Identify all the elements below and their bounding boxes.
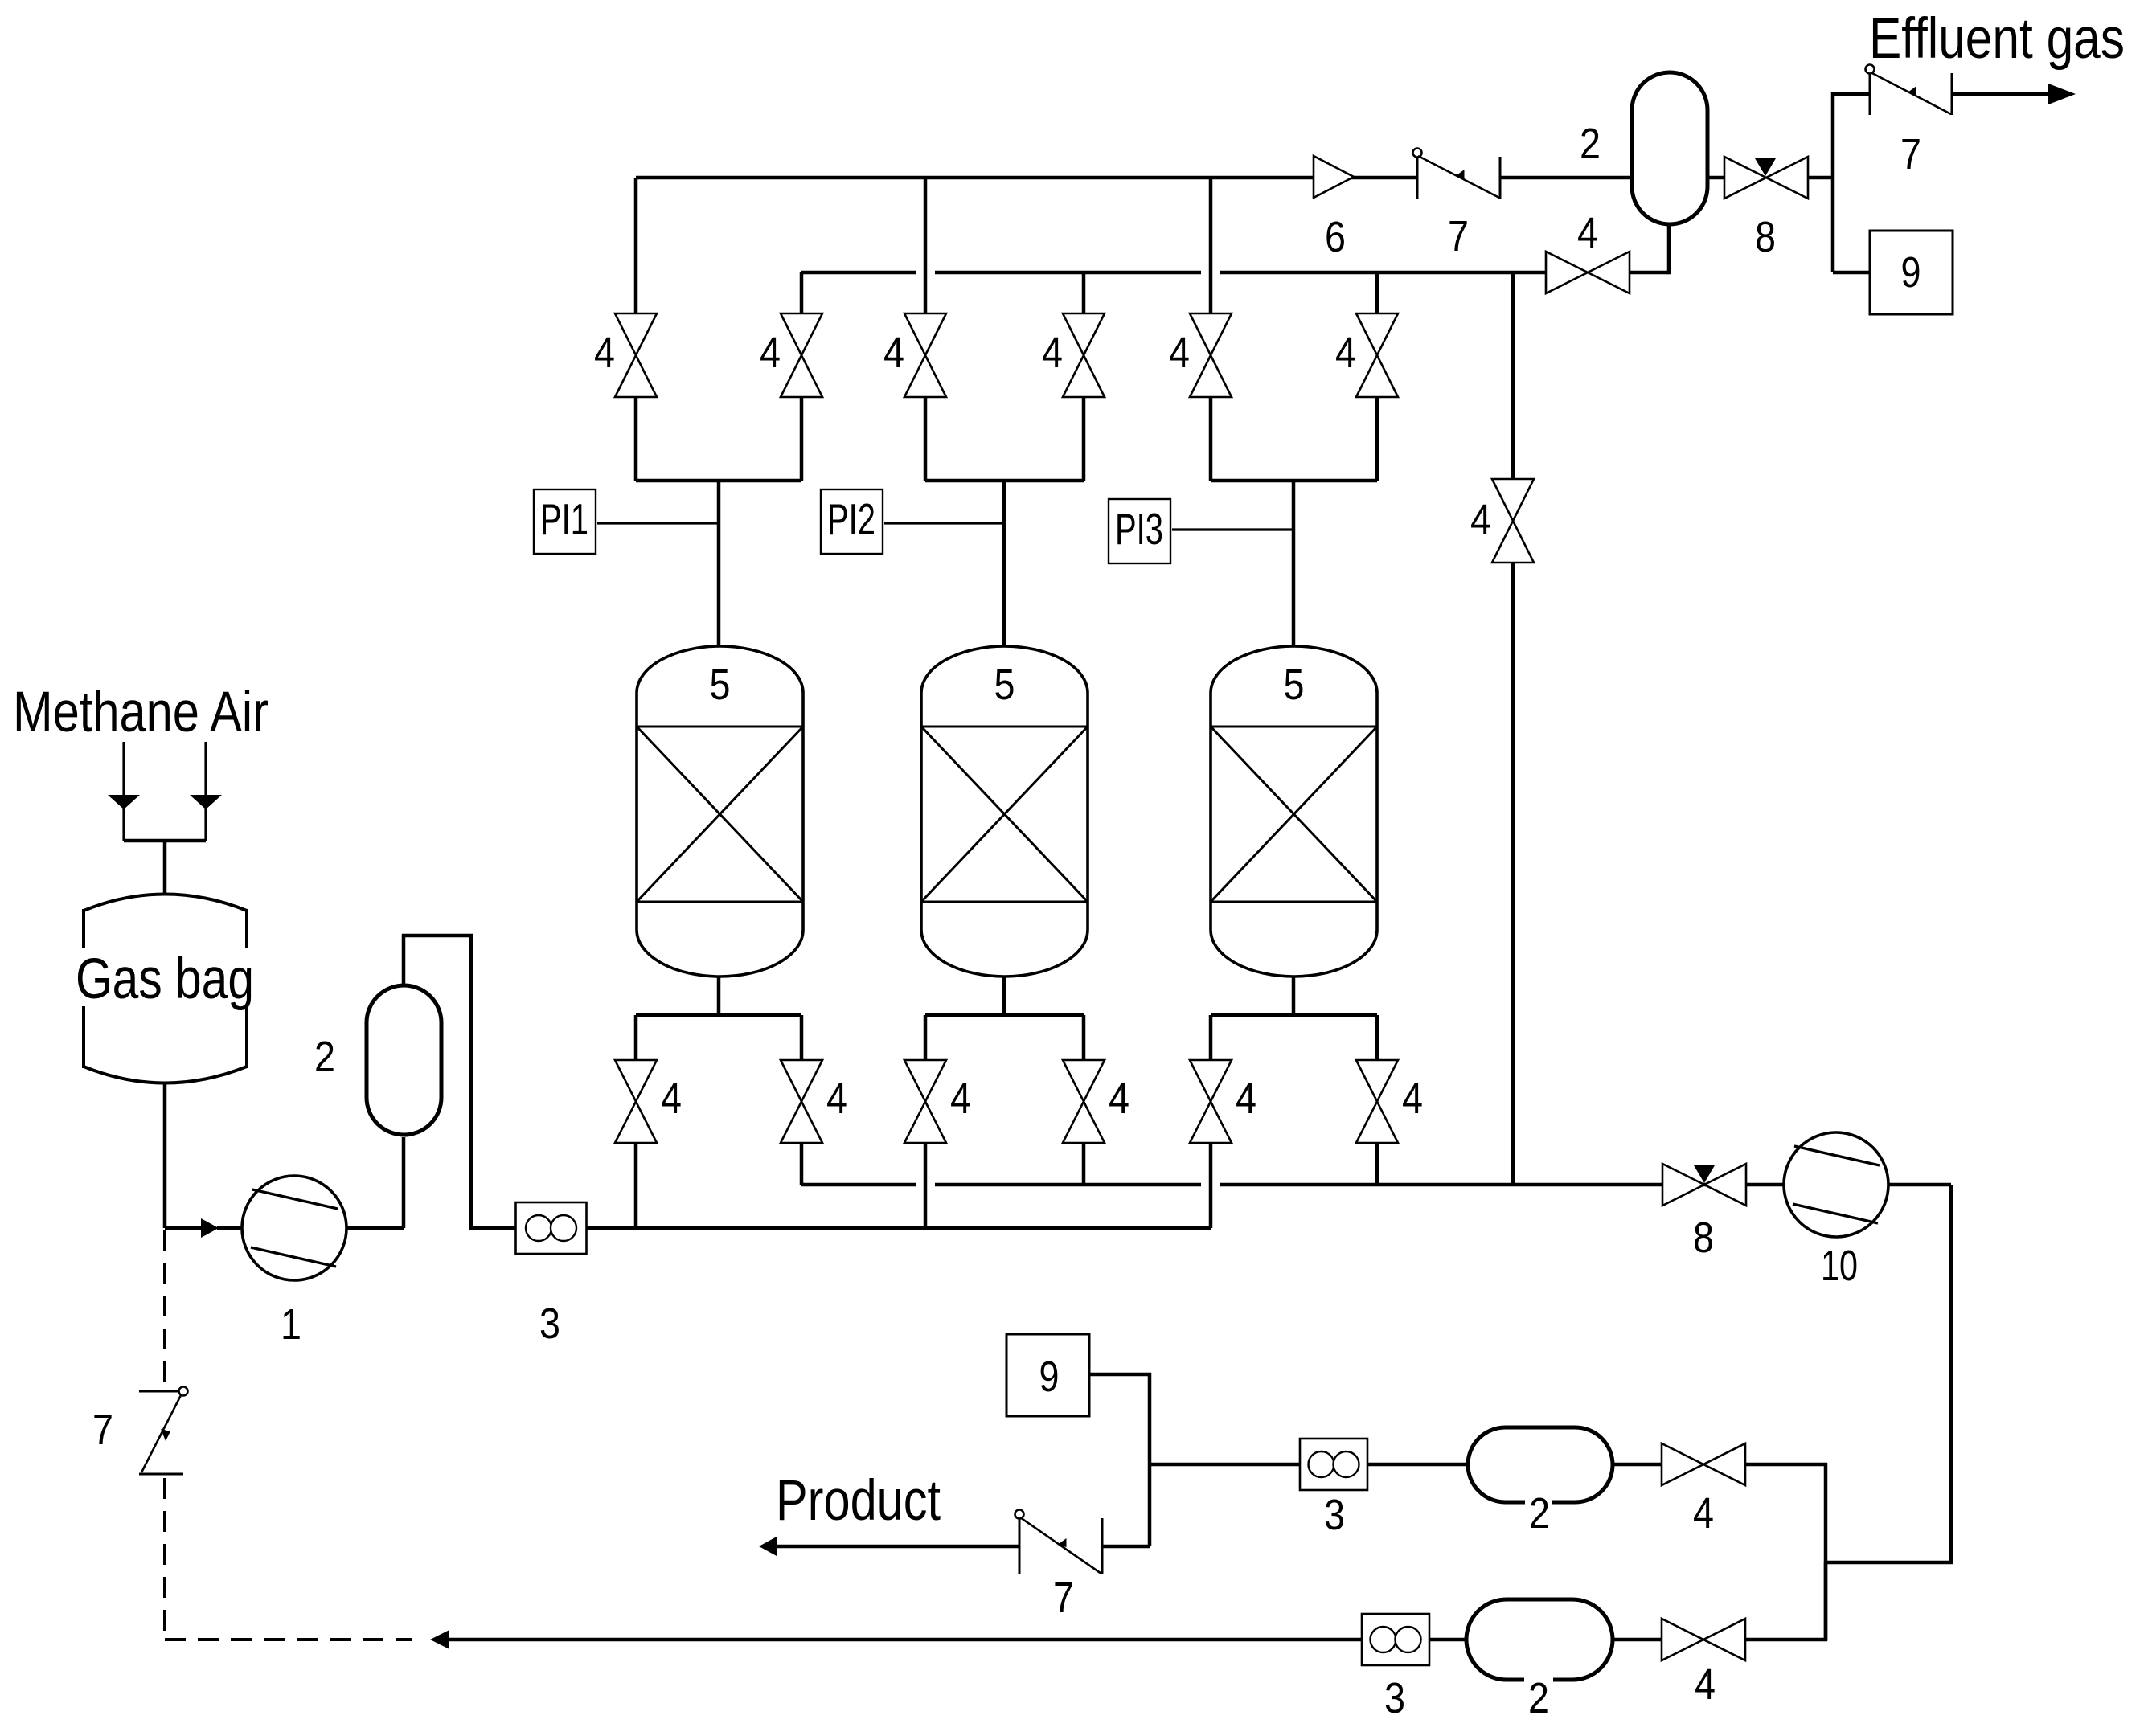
label 7 (recycle valve) — [92, 1406, 113, 1454]
flow meter 3 (product branch) — [1300, 1439, 1367, 1490]
label Methane Air — [13, 681, 269, 744]
label 4 (upper valve 2) — [760, 329, 781, 377]
svg-text:7: 7 — [92, 1406, 113, 1454]
manual valve 7 (effluent outlet) — [1866, 65, 1953, 116]
svg-text:4: 4 — [1693, 1489, 1714, 1537]
label 9 (top analyzer) — [1901, 248, 1921, 297]
svg-text:PI1: PI1 — [540, 494, 588, 544]
control valve 8 (top) — [1724, 157, 1808, 199]
wire riser to buffer vessel 2 — [402, 1137, 406, 1228]
svg-text:2: 2 — [314, 1033, 335, 1081]
wire join header reactor 1 — [636, 479, 801, 483]
wire recycle dashed line below valve 7 — [163, 1478, 166, 1640]
wire lower valve outlets: purge columns to purge header — [801, 1143, 1377, 1185]
flow meter 3 (return branch) — [1362, 1614, 1429, 1665]
svg-text:3: 3 — [539, 1300, 560, 1348]
svg-text:4: 4 — [1402, 1075, 1423, 1123]
wire recycle dashed line (vertical) — [163, 1230, 166, 1387]
label 4 (lower valve 6) — [1402, 1075, 1423, 1123]
svg-text:PI3: PI3 — [1115, 504, 1163, 554]
svg-text:7: 7 — [1053, 1574, 1074, 1622]
svg-text:3: 3 — [1324, 1491, 1345, 1539]
svg-text:7: 7 — [1448, 212, 1469, 260]
wire stems into adsorber tops — [719, 481, 1293, 651]
label PI3 — [1115, 504, 1163, 554]
adsorber column 5 (reactor 1) — [637, 646, 803, 976]
wire PI1 connection — [597, 522, 719, 524]
manual valve 7 (product outlet) — [1015, 1510, 1103, 1575]
wire valve outlets to join headers above adsorbers — [636, 397, 1377, 481]
analyzer box 9 (product) — [1006, 1334, 1089, 1416]
valve 4 (lower row, column 4) — [1063, 1060, 1105, 1143]
wire return line through meter and vessel — [1429, 1638, 1662, 1642]
label 1 (pump) — [281, 1300, 301, 1349]
label 2 (product buffer) — [1525, 1485, 1552, 1537]
valve 4 (lower row, column 2) — [781, 1060, 822, 1143]
valve 4 (lower row, column 1) — [615, 1060, 657, 1143]
wire Methane inlet arrow — [108, 742, 140, 841]
label 4 (lower valve 5) — [1236, 1075, 1256, 1123]
wire join header reactor 2 — [925, 479, 1084, 483]
wire pump 10 discharge down-leg — [1826, 1185, 1951, 1562]
wire lower valve outlets: feed columns to feed manifold — [636, 1143, 1211, 1228]
valve 4 (under top vessel 2) — [1546, 252, 1630, 293]
wire feed meter to manifold — [584, 1226, 639, 1230]
label 4 (lower valve 1) — [661, 1075, 682, 1123]
label PI2 — [827, 494, 875, 544]
svg-text:PI2: PI2 — [827, 494, 875, 544]
label 7 (top manifold valve) — [1448, 212, 1469, 260]
valve 4 (upper row, column 6) — [1356, 313, 1398, 397]
label 2 (return buffer) — [1524, 1670, 1553, 1722]
wire adsorber bottom stems and splits — [636, 972, 1377, 1060]
svg-text:7: 7 — [1900, 130, 1921, 178]
svg-text:4: 4 — [661, 1075, 682, 1123]
valve 4 (return branch) — [1662, 1619, 1745, 1660]
wire inlet join bar and stem into gas bag — [124, 841, 206, 895]
valve 4 (product branch) — [1662, 1443, 1745, 1485]
svg-text:10: 10 — [1821, 1242, 1858, 1290]
label 4 (upper valve 6) — [1335, 329, 1356, 377]
instrument box PI1 — [534, 489, 596, 554]
svg-text:8: 8 — [1693, 1214, 1714, 1262]
wire effluent gas arrow — [1952, 84, 2076, 104]
analyzer box 9 (top right) — [1870, 231, 1953, 314]
manual valve 7 (top manifold) — [1413, 149, 1501, 199]
valve 4 (upper row, column 3) — [904, 313, 946, 397]
label 4 (upper valve 5) — [1169, 329, 1190, 377]
wire PI2 connection — [884, 522, 1004, 524]
label 4 (upper valve 1) — [594, 329, 615, 377]
svg-text:1: 1 — [281, 1300, 301, 1349]
label 4 (lower valve 4) — [1109, 1075, 1129, 1123]
wire top vessel 2 outlet to valve 8 — [1707, 176, 1833, 180]
svg-text:4: 4 — [950, 1075, 971, 1123]
label 4 (valve under top vessel) — [1577, 209, 1598, 257]
vessel 2 (return buffer) — [1466, 1599, 1613, 1680]
svg-text:Effluent gas: Effluent gas — [1869, 7, 2125, 71]
svg-text:4: 4 — [594, 329, 615, 377]
wire effluent riser — [1833, 94, 1870, 272]
svg-text:5: 5 — [710, 661, 731, 709]
label 5 (reactor 3) — [1284, 661, 1305, 709]
svg-text:Methane Air: Methane Air — [13, 681, 269, 744]
vessel 2 (product buffer) — [1468, 1427, 1613, 1502]
valve 4 (lower row, column 3) — [904, 1060, 946, 1143]
svg-text:6: 6 — [1325, 213, 1346, 261]
svg-text:4: 4 — [1695, 1660, 1716, 1709]
valve 4 (upper row, column 2) — [781, 313, 822, 397]
vessel 2 (feed buffer) — [367, 985, 441, 1135]
control valve 8 (vacuum line) — [1662, 1164, 1746, 1206]
flow meter 3 (feed) — [516, 1202, 587, 1254]
svg-text:4: 4 — [760, 329, 781, 377]
label 4 (product valve) — [1693, 1489, 1714, 1537]
label 9 (product analyzer) — [1039, 1353, 1060, 1401]
wire recycle dashed line (horizontal) — [165, 1638, 412, 1641]
pump 10 (vacuum pump) — [1784, 1132, 1888, 1237]
manual valve 7 (recycle, on dashed line) — [139, 1387, 188, 1475]
svg-text:2: 2 — [1528, 1674, 1549, 1722]
wire product line — [759, 1537, 1150, 1556]
label 4 (lower valve 3) — [950, 1075, 971, 1123]
gas bag vessel — [84, 895, 247, 1083]
pump 1 (feed compressor) — [242, 1176, 346, 1280]
wire pump 1 suction/discharge line — [219, 1226, 404, 1230]
label 8 (top control valve) — [1755, 213, 1776, 261]
label Product — [776, 1469, 941, 1533]
valve 4 (upper row, column 4) — [1063, 313, 1105, 397]
svg-text:5: 5 — [1284, 661, 1305, 709]
wire PI3 connection — [1172, 528, 1293, 530]
wire return line right elbow — [1745, 1562, 1826, 1640]
wire upper separator branch — [1150, 1464, 1826, 1640]
label Gas bag — [76, 948, 254, 1011]
svg-text:4: 4 — [1335, 329, 1356, 377]
wire feed line junction arrow — [165, 1218, 242, 1238]
wire second manifold (purge/equalization line) — [801, 223, 1669, 274]
svg-text:2: 2 — [1580, 120, 1601, 168]
wire equalization drop line (second manifold to purge header) — [1511, 272, 1515, 1185]
instrument box PI2 — [821, 489, 883, 554]
label 4 (lower valve 2) — [826, 1075, 847, 1123]
label 3 (feed meter) — [539, 1300, 560, 1348]
svg-text:4: 4 — [1109, 1075, 1129, 1123]
svg-text:4: 4 — [1470, 496, 1491, 544]
label PI1 — [540, 494, 588, 544]
wire purge header to vacuum pump (with line hops at crossings) — [801, 1183, 1662, 1187]
valve 4 (upper row, column 5) — [1190, 313, 1232, 397]
label 4 (upper valve 3) — [883, 329, 904, 377]
valve 4 (lower row, column 5) — [1190, 1060, 1232, 1143]
wire feed manifold — [588, 1226, 1211, 1230]
svg-text:4: 4 — [1577, 209, 1598, 257]
wire Air inlet arrow — [190, 742, 222, 841]
valve 4 (equalization line) — [1492, 479, 1534, 563]
svg-text:8: 8 — [1755, 213, 1776, 261]
svg-text:Gas bag: Gas bag — [76, 948, 254, 1011]
svg-text:Product: Product — [776, 1469, 941, 1533]
instrument box PI3 — [1109, 499, 1170, 563]
svg-text:4: 4 — [826, 1075, 847, 1123]
wire drops from second manifold to valves 4 (columns 2,4,6) — [801, 272, 1377, 313]
svg-text:9: 9 — [1901, 248, 1921, 297]
svg-text:4: 4 — [883, 329, 904, 377]
label 2 (feed buffer) — [314, 1033, 335, 1081]
label 7 (effluent valve) — [1900, 130, 1921, 178]
label 5 (reactor 2) — [994, 661, 1015, 709]
vessel 2 (effluent buffer, top right) — [1632, 72, 1707, 224]
svg-text:4: 4 — [1236, 1075, 1256, 1123]
valve 4 (upper row, column 1) — [615, 313, 657, 397]
wire gas bag outlet stem — [163, 1083, 167, 1228]
adsorber column 5 (reactor 3) — [1211, 646, 1377, 976]
label 10 (vacuum pump) — [1821, 1242, 1858, 1290]
svg-text:3: 3 — [1384, 1674, 1405, 1722]
label 4 (upper valve 4) — [1042, 329, 1063, 377]
check valve 6 — [1314, 156, 1354, 198]
label 8 (vacuum valve) — [1693, 1214, 1714, 1262]
svg-text:2: 2 — [1529, 1489, 1550, 1537]
wire join header reactor 3 — [1211, 479, 1377, 483]
label 6 (check valve) — [1325, 213, 1346, 261]
wire buffer vessel 2 top loop — [404, 936, 518, 1228]
wire analyzer 9 connection (top) — [1833, 271, 1870, 275]
label 3 (product meter) — [1324, 1491, 1345, 1539]
label 5 (reactor 1) — [710, 661, 731, 709]
wire analyzer 9 connection (bottom) — [1089, 1374, 1150, 1546]
label 2 (top vessel) — [1580, 120, 1601, 168]
wire recycle return arrow — [430, 1630, 1363, 1649]
label 7 (product valve) — [1053, 1574, 1074, 1622]
svg-text:4: 4 — [1169, 329, 1190, 377]
label 4 (equalization valve) — [1470, 496, 1491, 544]
label 4 (return valve) — [1695, 1660, 1716, 1709]
wire risers from top manifold to valves 4 (columns 1,3,5) — [636, 178, 1211, 313]
label 3 (return meter) — [1384, 1674, 1405, 1722]
svg-text:5: 5 — [994, 661, 1015, 709]
wire top manifold (upper gas collection line) — [636, 176, 1632, 180]
adsorber column 5 (reactor 2) — [921, 646, 1088, 976]
wire vacuum pump line — [1662, 1183, 1951, 1187]
label Effluent gas — [1869, 7, 2125, 71]
svg-text:4: 4 — [1042, 329, 1063, 377]
valve 4 (lower row, column 6) — [1356, 1060, 1398, 1143]
svg-text:9: 9 — [1039, 1353, 1060, 1401]
